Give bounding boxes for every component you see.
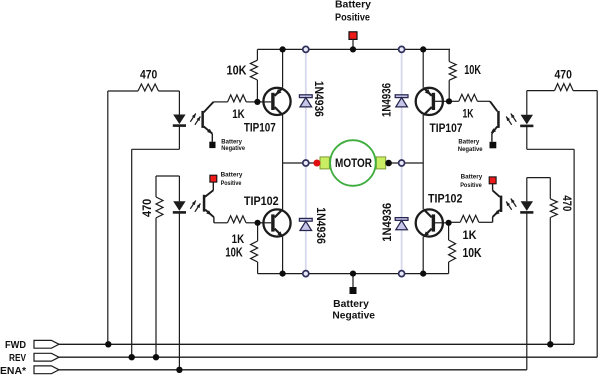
transistor Q2 TIP102 lower-left (NPN) [263, 209, 290, 236]
svg-text:TIP107: TIP107 [430, 121, 463, 135]
wire TIP107-left collector down [282, 115, 284, 163]
junction dot REV-center [153, 354, 159, 360]
svg-text:REV: REV [9, 352, 26, 364]
svg-text:1K: 1K [232, 232, 245, 246]
battery negative connector (black square) upper-right [490, 142, 497, 149]
junction dot top rail left [280, 46, 286, 52]
wire TIP102-right emitter to bottom rail [422, 237, 424, 274]
LED D7 upper-right [521, 115, 533, 125]
optocoupler U4 phototransistor lower-right [492, 184, 494, 191]
junction dot bottom rail left [280, 271, 286, 277]
wire LED cathode to ENA* right [526, 214, 528, 370]
svg-text:Battery: Battery [458, 138, 479, 145]
motor node dot black (right terminal) [385, 160, 392, 167]
junction dot TIP102-left base [255, 220, 261, 226]
svg-text:Negative: Negative [458, 146, 483, 153]
diode D4 1N4936 lower-left [299, 218, 312, 221]
wire FWD line [59, 343, 574, 345]
wire base lead TIP102 left [258, 222, 272, 224]
wire TIP107-right collector down [422, 115, 424, 163]
junction dot REV-left [129, 354, 135, 360]
svg-text:Negative: Negative [332, 310, 375, 321]
wire bottom negative rail [258, 273, 449, 275]
wire ENA* line [59, 369, 527, 371]
wire 1N4936 column lower-right (lavender) [401, 163, 403, 274]
svg-text:1K: 1K [463, 228, 477, 242]
connector tag ENA* [34, 366, 59, 374]
junction dot bottom rail right [420, 271, 426, 277]
svg-text:1N4936: 1N4936 [312, 81, 326, 117]
svg-text:Battery: Battery [333, 299, 369, 310]
svg-text:470: 470 [555, 67, 573, 81]
transistor Q4 TIP102 lower-right (NPN) [416, 209, 443, 236]
svg-text:1N4936: 1N4936 [380, 83, 394, 117]
wire FWD riser x=574.1 [573, 149, 575, 344]
wire 1N4936 column upper-left (lavender) [305, 49, 307, 163]
junction dot FWD-left [105, 341, 111, 347]
wire base lead TIP107 right [435, 100, 449, 102]
svg-text:FWD: FWD [5, 339, 26, 351]
svg-text:470: 470 [140, 68, 157, 82]
junction node open circle motor-right [399, 160, 405, 166]
resistor R 1K upper-left [228, 95, 247, 102]
battery positive connector (red square) top [349, 32, 357, 40]
LED D1 upper-left [173, 115, 185, 125]
svg-text:1K: 1K [463, 106, 474, 120]
wire FWD riser x=107.8 [107, 91, 109, 344]
junction dot ENA* [176, 367, 182, 373]
wire motor left [283, 162, 320, 164]
wire LED anode lower-left [178, 176, 180, 201]
svg-text:470: 470 [142, 199, 154, 217]
wire stub battery positive to rail [352, 39, 354, 49]
wire TIP102-right collector up to motor node [422, 163, 424, 209]
junction node open circle bottom-left [303, 271, 309, 277]
wire jog lower-left 470 to LED [156, 175, 179, 177]
junction dot top rail right [420, 46, 426, 52]
motor node dot red (left terminal) [313, 160, 320, 167]
svg-text:10K: 10K [225, 246, 242, 260]
wire 1N4936 column lower-left (lavender) [305, 163, 307, 274]
junction dot TIP107-right base [446, 98, 452, 104]
svg-text:Negative: Negative [221, 145, 245, 152]
resistor R 1K lower-right [460, 215, 479, 222]
svg-text:10K: 10K [227, 63, 247, 77]
wire REV riser x=131.7 [131, 149, 133, 357]
wire stub battery negative [352, 274, 354, 287]
svg-text:Positive: Positive [335, 12, 370, 23]
svg-text:1K: 1K [232, 107, 245, 121]
wire LED anode upper-left [178, 91, 180, 115]
junction node open circle top-right [399, 46, 405, 52]
wire TIP107-right emitter to rail [422, 49, 424, 87]
svg-text:470: 470 [560, 195, 572, 211]
resistor R 470 lower-right (vertical) [549, 178, 551, 199]
svg-text:TIP102: TIP102 [428, 192, 462, 206]
opto LED light arrows lower-left [190, 201, 196, 209]
wire REV riser x=597.2 [596, 91, 598, 358]
LED D2 lower-left [173, 201, 185, 211]
connector tag FWD [34, 340, 59, 348]
svg-text:Battery: Battery [461, 174, 483, 181]
resistor R 10K lower-left [257, 223, 259, 241]
junction node open circle motor-left [303, 160, 309, 166]
svg-text:1N4936: 1N4936 [380, 203, 394, 242]
svg-text:Positive: Positive [221, 180, 242, 187]
resistor R 10K upper-left [256, 49, 258, 60]
transistor Q1 TIP107 upper-left (PNP) [263, 88, 290, 115]
battery positive connector (red square) lower-right [489, 177, 496, 184]
junction dot bottom rail center [350, 271, 356, 277]
svg-text:Positive: Positive [460, 182, 482, 189]
resistor R 470 lower-left (vertical) [155, 176, 157, 197]
junction dot FWD-right [547, 341, 553, 347]
resistor R 1K upper-right [449, 100, 459, 102]
wire top positive rail [257, 48, 450, 50]
junction node open circle bottom-right [399, 271, 405, 277]
junction node open circle top-left [303, 46, 309, 52]
svg-text:MOTOR: MOTOR [335, 156, 372, 170]
transistor Q3 TIP107 upper-right (PNP) [416, 88, 443, 115]
resistor R 470 upper-right [527, 90, 555, 92]
battery positive connector (red square) lower-left [210, 175, 217, 182]
optocoupler U1 phototransistor upper-left [204, 102, 214, 113]
wire base lead TIP102 right [435, 222, 449, 224]
motor terminal right [376, 157, 385, 169]
diode D3 1N4936 upper-left [299, 95, 312, 98]
junction dot TIP107-left base [254, 99, 260, 105]
wire opto emitter to 1K lower-right [479, 221, 493, 223]
wire base lead TIP107 left [257, 101, 271, 103]
wire opto emitter to 1K lower-left [214, 222, 228, 224]
junction dot TIP102-right base [446, 220, 452, 226]
motor terminal left [320, 157, 329, 169]
wire LED cathode jog upper-left [178, 127, 180, 150]
connector tag REV [34, 353, 59, 361]
diode D5 1N4936 upper-right [395, 95, 408, 98]
resistor R 1K lower-left [228, 216, 247, 223]
svg-text:ENA*: ENA* [0, 365, 27, 376]
svg-text:TIP107: TIP107 [244, 121, 276, 135]
svg-text:10K: 10K [462, 246, 481, 260]
opto LED light arrows lower-right [511, 199, 517, 207]
LED D8 lower-right [521, 201, 533, 211]
resistor R 10K upper-right [448, 48, 451, 50]
wire jog lower-right LED to 470 [527, 177, 551, 179]
svg-text:TIP102: TIP102 [244, 194, 279, 208]
battery negative connector (black square) bottom [350, 287, 357, 294]
svg-text:10K: 10K [464, 63, 481, 77]
svg-text:Battery: Battery [335, 0, 371, 10]
motor M1 body [330, 140, 376, 186]
resistor R 10K lower-right [448, 223, 450, 240]
wire REV line [59, 356, 597, 358]
wire LED cathode jog upper-right [526, 127, 528, 149]
resistor R 470 upper-left [108, 90, 138, 92]
wire TIP102-left collector up to motor node [282, 163, 284, 209]
wire LED anode upper-right [526, 91, 528, 115]
optocoupler U3 phototransistor upper-right [490, 101, 497, 111]
svg-text:Battery: Battery [221, 172, 243, 179]
wire motor right [386, 162, 424, 164]
diode D6 1N4936 lower-right [395, 218, 408, 221]
wire LED cathode to ENA* [178, 213, 180, 369]
wire TIP107-left emitter to rail [282, 49, 284, 87]
svg-text:1N4936: 1N4936 [314, 207, 328, 244]
opto LED light arrows upper-right [511, 114, 517, 122]
optocoupler U2 phototransistor lower-left [212, 182, 214, 190]
wire 1N4936 column upper-right (lavender) [401, 49, 403, 163]
battery negative connector (black square) upper-left [209, 142, 215, 148]
opto LED light arrows upper-left [190, 114, 196, 122]
junction dot top rail center [350, 46, 356, 52]
wire LED anode lower-right [526, 178, 528, 202]
wire TIP102-left emitter to bottom rail [282, 237, 284, 274]
